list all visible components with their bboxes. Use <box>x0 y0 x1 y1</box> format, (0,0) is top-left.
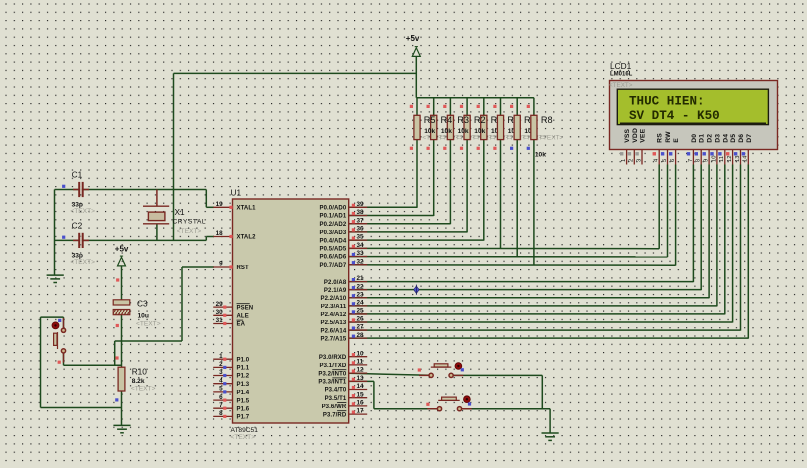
svg-text:AT89C51: AT89C51 <box>231 427 259 434</box>
svg-text:P0.7/AD7: P0.7/AD7 <box>319 263 346 269</box>
svg-text:2: 2 <box>219 361 223 368</box>
svg-text:P1.1: P1.1 <box>237 366 250 372</box>
svg-text:16: 16 <box>357 400 365 407</box>
svg-text:U1: U1 <box>231 188 242 198</box>
svg-text:1: 1 <box>621 159 627 162</box>
svg-text:12: 12 <box>357 367 365 374</box>
svg-text:7: 7 <box>688 159 694 162</box>
svg-text:9: 9 <box>704 159 710 162</box>
svg-text:35: 35 <box>357 234 365 241</box>
svg-text:31: 31 <box>216 317 224 324</box>
svg-text:22: 22 <box>357 283 365 290</box>
svg-text:8: 8 <box>696 159 702 162</box>
svg-text:P3.4/T0: P3.4/T0 <box>325 388 347 394</box>
svg-text:P0.1/AD1: P0.1/AD1 <box>319 214 346 220</box>
svg-text:P1.2: P1.2 <box>237 374 250 380</box>
svg-text:11: 11 <box>357 359 364 366</box>
svg-text:P1.5: P1.5 <box>237 398 250 404</box>
svg-text:14: 14 <box>743 155 749 162</box>
svg-text:<TEXT>: <TEXT> <box>231 434 256 441</box>
svg-text:36: 36 <box>357 226 365 233</box>
svg-text:R5: R5 <box>424 115 436 125</box>
svg-text:39: 39 <box>357 201 365 208</box>
svg-text:27: 27 <box>357 324 365 331</box>
svg-text:C3: C3 <box>137 299 148 309</box>
svg-text:P1.7: P1.7 <box>237 415 250 421</box>
svg-text:RW: RW <box>665 131 672 143</box>
svg-text:2: 2 <box>629 159 635 162</box>
svg-text:28: 28 <box>357 332 365 339</box>
svg-text:P1.4: P1.4 <box>237 390 250 396</box>
svg-text:3: 3 <box>636 159 642 162</box>
svg-text:P2.1/A9: P2.1/A9 <box>324 288 347 294</box>
svg-text:P0.2/AD2: P0.2/AD2 <box>319 222 346 228</box>
svg-text:D1: D1 <box>699 134 706 143</box>
svg-text:R3: R3 <box>457 115 469 125</box>
svg-text:THUC HIEN:: THUC HIEN: <box>629 94 705 108</box>
svg-text:10u: 10u <box>138 313 149 320</box>
svg-text:<TEXT>: <TEXT> <box>177 228 202 235</box>
svg-text:E: E <box>673 138 680 143</box>
svg-text:D0: D0 <box>691 134 698 143</box>
svg-text:LCD1: LCD1 <box>610 61 632 71</box>
svg-text:10k: 10k <box>424 128 435 135</box>
svg-text:D5: D5 <box>730 134 737 143</box>
svg-text:P1.6: P1.6 <box>237 406 250 412</box>
svg-text:33: 33 <box>357 250 365 257</box>
svg-text:5: 5 <box>219 386 223 393</box>
svg-text:24: 24 <box>357 299 365 306</box>
svg-text:PSEN: PSEN <box>237 305 254 311</box>
svg-text:P3.5/T1: P3.5/T1 <box>325 396 347 402</box>
svg-text:X1: X1 <box>175 207 186 217</box>
svg-text:26: 26 <box>357 316 365 323</box>
svg-text:10: 10 <box>711 156 717 162</box>
svg-text:10k: 10k <box>535 152 546 159</box>
svg-text:P0.3/AD3: P0.3/AD3 <box>319 230 346 236</box>
svg-text:4: 4 <box>219 377 223 384</box>
svg-text:P2.4/A12: P2.4/A12 <box>320 312 346 318</box>
svg-text:37: 37 <box>357 217 365 224</box>
svg-text:3: 3 <box>219 369 223 376</box>
svg-text:XTAL1: XTAL1 <box>237 206 257 212</box>
svg-text:32: 32 <box>357 258 365 265</box>
svg-text:P0.4/AD4: P0.4/AD4 <box>319 238 346 244</box>
svg-text:10k: 10k <box>441 128 452 135</box>
svg-text:+5v: +5v <box>115 245 129 254</box>
svg-text:<TEXT>: <TEXT> <box>70 208 95 215</box>
svg-text:D4: D4 <box>722 134 729 143</box>
svg-text:13: 13 <box>735 156 741 162</box>
svg-text:D6: D6 <box>738 134 745 143</box>
svg-text:21: 21 <box>357 275 365 282</box>
svg-text:R10: R10 <box>132 367 148 377</box>
svg-text:8.2k: 8.2k <box>132 378 145 385</box>
svg-text:C2: C2 <box>72 220 83 230</box>
svg-text:XTAL2: XTAL2 <box>237 235 257 241</box>
svg-text:P1.0: P1.0 <box>237 357 250 363</box>
svg-text:<TEXT>: <TEXT> <box>539 134 563 141</box>
svg-text:25: 25 <box>357 308 365 315</box>
svg-text:18: 18 <box>216 230 224 237</box>
svg-text:13: 13 <box>357 375 365 382</box>
svg-text:P2.3/A11: P2.3/A11 <box>321 304 347 310</box>
svg-text:P2.6/A14: P2.6/A14 <box>320 328 346 334</box>
svg-text:LM016L: LM016L <box>610 72 633 78</box>
svg-text:5: 5 <box>662 159 668 162</box>
svg-text:10k: 10k <box>458 128 469 135</box>
svg-text:10k: 10k <box>474 128 485 135</box>
svg-text:P2.5/A13: P2.5/A13 <box>320 320 346 326</box>
svg-text:30: 30 <box>216 309 224 316</box>
svg-text:SV DT4 - K50: SV DT4 - K50 <box>629 109 720 123</box>
svg-text:RS: RS <box>657 133 664 143</box>
svg-text:<TEXT>: <TEXT> <box>136 321 161 328</box>
svg-text:P2.2/A10: P2.2/A10 <box>320 296 346 302</box>
svg-text:23: 23 <box>357 291 365 298</box>
svg-text:19: 19 <box>216 201 224 208</box>
svg-text:7: 7 <box>219 402 223 409</box>
svg-text:VSS: VSS <box>624 128 631 142</box>
svg-text:P3.7/RD: P3.7/RD <box>323 412 347 418</box>
svg-text:VDD: VDD <box>632 128 639 143</box>
svg-text:P0.5/AD5: P0.5/AD5 <box>319 247 346 253</box>
svg-text:P2.0/A8: P2.0/A8 <box>324 280 347 286</box>
svg-text:10: 10 <box>357 350 365 357</box>
svg-text:P1.3: P1.3 <box>237 382 250 388</box>
svg-text:R2: R2 <box>474 115 486 125</box>
svg-text:<TEXT>: <TEXT> <box>609 82 633 89</box>
svg-text:34: 34 <box>357 242 365 249</box>
svg-text:+5v: +5v <box>406 34 420 43</box>
svg-text:D3: D3 <box>714 134 721 143</box>
svg-text:P3.3/INT1: P3.3/INT1 <box>318 380 346 386</box>
svg-text:6: 6 <box>219 394 223 401</box>
svg-text:12: 12 <box>727 156 733 162</box>
svg-text:1: 1 <box>219 353 223 360</box>
svg-text:VEE: VEE <box>640 128 647 142</box>
svg-text:CRYSTAL: CRYSTAL <box>173 219 207 226</box>
svg-text:EA: EA <box>237 322 246 328</box>
svg-text:C1: C1 <box>72 170 83 180</box>
svg-text:P0.0/AD0: P0.0/AD0 <box>319 206 346 212</box>
svg-text:P3.2/INT0: P3.2/INT0 <box>318 371 346 377</box>
svg-text:RST: RST <box>237 265 250 271</box>
svg-text:D2: D2 <box>707 134 714 143</box>
svg-text:P3.0/RXD: P3.0/RXD <box>319 355 347 361</box>
svg-text:38: 38 <box>357 209 365 216</box>
svg-text:8: 8 <box>219 410 223 417</box>
svg-text:15: 15 <box>357 391 365 398</box>
svg-text:14: 14 <box>357 383 365 390</box>
svg-text:6: 6 <box>670 159 676 162</box>
svg-text:<TEXT>: <TEXT> <box>131 386 156 393</box>
svg-text:29: 29 <box>216 301 224 308</box>
svg-text:<TEXT>: <TEXT> <box>70 259 95 266</box>
svg-text:17: 17 <box>357 408 365 415</box>
svg-text:9: 9 <box>219 261 223 268</box>
svg-text:R8: R8 <box>541 115 553 125</box>
svg-text:11: 11 <box>719 156 725 162</box>
svg-text:P3.1/TXD: P3.1/TXD <box>319 363 346 369</box>
svg-text:P2.7/A15: P2.7/A15 <box>320 336 346 342</box>
svg-text:ALE: ALE <box>237 314 249 320</box>
svg-text:R4: R4 <box>441 115 453 125</box>
svg-text:P3.6/WR: P3.6/WR <box>322 404 347 410</box>
svg-text:D7: D7 <box>746 134 753 143</box>
svg-text:P0.6/AD6: P0.6/AD6 <box>319 255 346 261</box>
